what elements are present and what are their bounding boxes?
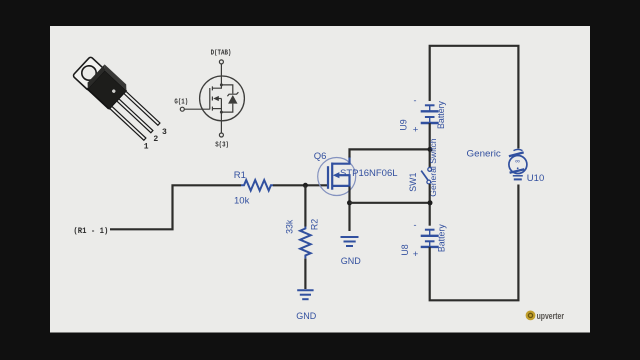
wire diode branch bottom [221,104,232,113]
Q6 right tie [348,174,350,187]
diode D triangle [228,95,237,104]
svg-text:3: 3 [162,128,167,137]
Q6 drain stub [332,157,349,164]
svg-text:2: 2 [153,135,158,144]
wire R2 to ground [304,259,306,289]
ground below Q6 [341,237,359,246]
node Q6 source junction [347,200,352,205]
svg-text:U10: U10 [527,173,544,184]
svg-text:+: + [413,249,419,260]
svg-text:U8: U8 [400,244,410,255]
channel segment bottom [211,107,213,111]
pinout symbol U (MOSFET in circle) [174,50,244,150]
wire U9 to switch [429,123,431,168]
wire bottom rail [430,185,519,301]
wire source stub [212,108,221,110]
wire top rail [430,46,519,149]
symbol circle [200,76,245,121]
wire from (R1 - 1) to R1 [110,185,241,229]
svg-text:(R1 - 1): (R1 - 1) [73,226,108,236]
ground below R2 [297,290,313,299]
wire drain stub [212,85,221,88]
Q6 symbol circle [318,158,356,196]
resistor R1 [241,180,273,191]
channel segment top [211,86,213,90]
svg-text:GND: GND [296,311,317,321]
upverter logo [526,311,565,322]
svg-text:Q6: Q6 [314,151,327,162]
wire source lead [220,112,222,133]
TO-220 package drawing [72,54,163,142]
wire Q6 drain up and right [350,149,431,157]
svg-text:Generic: Generic [467,149,502,160]
wire body stub with arrow [218,98,222,100]
schematic canvas [50,26,590,333]
wire drain lead [220,64,222,85]
battery U9 [421,105,439,123]
gate bar [209,88,211,109]
wire switch to U8 [429,184,431,226]
wire gate lead [184,108,209,110]
node junction R1/R2 [303,183,308,188]
svg-text:10k: 10k [234,196,250,207]
diode D cathode bar [227,92,238,96]
svg-text:-: - [414,220,417,230]
Q6 channel bar [331,163,333,190]
svg-text:Battery: Battery [437,224,447,252]
Q6 gate bar [327,166,329,189]
svg-text:33k: 33k [285,219,295,234]
pin circle D [219,60,223,64]
Q6 body arrow [338,174,350,176]
svg-text:+: + [413,125,419,136]
channel segment middle [211,97,213,101]
svg-text:SW1: SW1 [408,173,418,192]
svg-text:D(TAB): D(TAB) [211,50,232,58]
lamp U10 (generic) [509,149,527,179]
svg-text:-: - [414,96,417,106]
node drain junction [220,83,223,86]
node source junction [220,111,223,114]
pin circle S [219,133,223,137]
wire diode branch top [221,85,232,94]
svg-text:GND: GND [341,256,362,266]
lamp dot mark [517,167,519,169]
svg-text:R2: R2 [310,219,320,230]
node drain rail junction [428,147,433,152]
svg-text:S(3): S(3) [215,141,229,149]
battery U8 [421,230,439,247]
svg-text:U9: U9 [399,119,409,130]
svg-text:∞: ∞ [515,158,520,165]
svg-text:R1: R1 [234,170,246,181]
resistor R2 [300,227,311,259]
svg-text:upverter: upverter [537,311,565,321]
svg-text:Battery: Battery [436,100,446,128]
wire source node to switch node [350,202,431,204]
wire Q6 source down [348,187,350,232]
switch SW1 [421,168,431,184]
pin circle G [180,107,184,111]
svg-text:STP16NF06L: STP16NF06L [340,168,398,179]
Q6 source stub [332,185,349,187]
wire junction to R2 [304,185,306,226]
svg-text:G(1): G(1) [174,98,188,106]
svg-text:1: 1 [144,143,149,152]
wire R1 to gate [273,184,328,186]
node source rail junction [428,200,433,205]
wire body-source tie [220,99,222,113]
